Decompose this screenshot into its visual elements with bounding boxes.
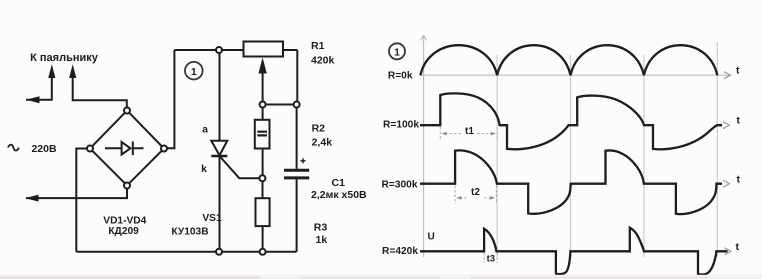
bridge node right: [161, 146, 167, 152]
junction node bottom rail / thyristor: [216, 249, 222, 255]
bridge node bottom: [124, 183, 130, 189]
wire R2 to gate node: [262, 149, 264, 176]
svg-text:R=100k: R=100k: [383, 120, 419, 131]
C1 polarity +: [300, 158, 305, 163]
trace 4 curve: [420, 228, 728, 275]
t1 dimension: [440, 127, 497, 141]
svg-text:420k: 420k: [311, 55, 335, 67]
wire wiper junction cross: [263, 104, 297, 106]
svg-text:t2: t2: [471, 187, 480, 198]
svg-text:R3: R3: [314, 222, 328, 234]
wire bridge left vertex to bottom rail: [76, 149, 87, 252]
trace 1 curve: full sine humps: [420, 45, 717, 75]
svg-text:1k: 1k: [316, 234, 328, 246]
thyristor cathode bar: [211, 155, 227, 157]
wire junction to R2: [262, 108, 264, 120]
bottom faint strip: [0, 275, 762, 279]
bridge node top: [124, 108, 130, 114]
svg-text:R2: R2: [312, 123, 326, 135]
svg-text:t1: t1: [465, 126, 474, 137]
gridline at period 3: [643, 55, 645, 257]
junction node R1/C1: [294, 102, 300, 108]
svg-text:R=420k: R=420k: [382, 246, 418, 257]
trace 4 axis arrow: [725, 248, 732, 255]
wire R3 to bottom rail: [262, 226, 264, 249]
gridline at period 4: [716, 42, 718, 257]
svg-text:КУ103В: КУ103В: [171, 227, 208, 238]
junction node R3/bottom rail: [260, 249, 266, 255]
wire bridge right vertex up to top rail: [167, 50, 174, 148]
junction node gate: [259, 175, 265, 181]
thyristor VS1 triangle: [211, 141, 227, 156]
t2 dimension: [455, 186, 496, 205]
diode inside bridge: [105, 147, 144, 149]
svg-text:2,4k: 2,4k: [312, 137, 333, 149]
svg-text:КД209: КД209: [108, 226, 139, 237]
wire mains lower with left arrow: [26, 189, 127, 199]
svg-text:k: k: [201, 163, 207, 175]
resistor R2 body: [255, 120, 270, 149]
svg-text:VD1-VD4: VD1-VD4: [103, 215, 146, 226]
svg-text:t: t: [736, 241, 740, 253]
trace 1 axis (gray) with t arrow: [420, 74, 729, 76]
wire gate node to R3: [262, 181, 264, 198]
svg-text:t: t: [736, 65, 740, 77]
svg-text:1: 1: [191, 66, 197, 78]
wire C1 branch upper: [296, 108, 298, 169]
trace 3 curve: [420, 150, 722, 214]
wire top rail: [174, 49, 297, 51]
wire R1 right side down: [296, 50, 298, 102]
trace 2 axis arrow: [723, 122, 730, 129]
gridline at period 2: [570, 55, 572, 257]
svg-text:C1: C1: [332, 177, 346, 189]
svg-text:R1: R1: [311, 40, 325, 52]
svg-text:220В: 220В: [31, 143, 57, 155]
svg-text:К паяльнику: К паяльнику: [30, 52, 99, 64]
AC source symbol ~: [8, 145, 19, 151]
junction node wiper: [260, 102, 266, 108]
schematic marker circled 1: [185, 62, 203, 80]
svg-text:VS1: VS1: [202, 213, 222, 224]
gridline at period 1: [496, 55, 498, 257]
svg-text:t3: t3: [487, 253, 495, 264]
thyristor gate wire: [221, 158, 260, 179]
wire output left (to iron) with up arrow: [26, 76, 52, 100]
svg-text:2,2мк x50В: 2,2мк x50В: [311, 189, 367, 201]
svg-text:t: t: [737, 115, 741, 127]
bridge rectifier VD1-VD4 diamond: [90, 111, 164, 186]
trace 3 axis arrow: [723, 180, 730, 187]
svg-text:R=300k: R=300k: [382, 179, 418, 190]
svg-text:a: a: [202, 124, 208, 136]
wire C1 lower to bottom rail: [296, 179, 298, 251]
potentiometer R1 body: [244, 42, 284, 57]
capacitor C1 plates: [284, 169, 309, 172]
svg-text:U: U: [428, 231, 435, 242]
waveform marker circled 1: [389, 43, 405, 59]
junction node top rail / thyristor: [216, 47, 222, 53]
bridge node left: [87, 146, 93, 152]
svg-text:R=0k: R=0k: [388, 70, 413, 81]
trace 2 curve: [420, 93, 722, 149]
resistor R3 body: [256, 198, 270, 226]
R1 wiper arrow: [262, 72, 264, 105]
bottom rail wire: [76, 251, 296, 253]
wire output right (to iron) to bridge top vertex: [73, 76, 127, 108]
thyristor anode/cathode vertical wire: [219, 53, 221, 249]
svg-text:1: 1: [394, 47, 400, 58]
axis vertical U (gray): [423, 36, 425, 257]
svg-text:t: t: [737, 174, 741, 186]
t3 dimension: [484, 253, 497, 263]
